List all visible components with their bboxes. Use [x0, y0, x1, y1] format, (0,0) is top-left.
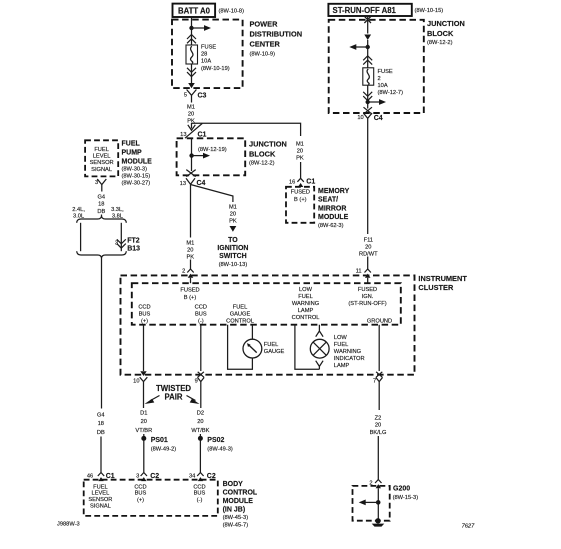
svg-text:FUEL: FUEL	[93, 484, 108, 490]
connector C4 pin 10 right	[357, 113, 382, 122]
svg-text:(-): (-)	[198, 319, 204, 325]
wire M1 20 PK C3 to C1	[187, 102, 195, 129]
label CCD BUS(-) cluster	[195, 305, 207, 325]
svg-text:MIRROR: MIRROR	[318, 205, 346, 212]
svg-text:C4: C4	[374, 115, 383, 122]
svg-text:LEVEL: LEVEL	[92, 491, 110, 497]
wire Z2 20 BK/LG	[370, 386, 387, 476]
svg-text:SENSOR: SENSOR	[90, 160, 114, 166]
connector C4 pin 13	[180, 178, 206, 187]
svg-text:ST-RUN-OFF A81: ST-RUN-OFF A81	[333, 6, 397, 15]
label 2.4L 3.0L	[72, 207, 85, 220]
label M1 20 PK ignition	[229, 204, 237, 224]
wire BATT A0 to fuse 28	[191, 17, 193, 45]
svg-text:D1: D1	[140, 410, 147, 416]
svg-text:20: 20	[188, 111, 194, 117]
svg-text:(8W-62-3): (8W-62-3)	[318, 223, 344, 229]
svg-text:(8W-15-3): (8W-15-3)	[393, 495, 419, 501]
svg-text:(8W-10-15): (8W-10-15)	[415, 8, 444, 14]
svg-text:LAMP: LAMP	[334, 363, 350, 369]
svg-text:PAIR: PAIR	[164, 393, 182, 402]
svg-text:BUS: BUS	[195, 312, 207, 318]
svg-text:18: 18	[98, 202, 104, 208]
svg-text:(8W-10-19): (8W-10-19)	[201, 66, 230, 72]
svg-text:FUSED: FUSED	[358, 287, 377, 293]
svg-text:20: 20	[230, 211, 236, 217]
brace engine merge bottom	[77, 251, 127, 258]
svg-text:C1: C1	[306, 179, 315, 186]
svg-text:BUS: BUS	[139, 312, 151, 318]
svg-text:RD/WT: RD/WT	[359, 251, 378, 257]
label FUSE 2 10A (8W-12-7)	[378, 69, 404, 96]
svg-text:7627: 7627	[462, 523, 475, 529]
wire CCD bus plus inside cluster	[143, 325, 145, 371]
svg-text:(8W-10-13): (8W-10-13)	[219, 262, 248, 268]
fuse 2 10A	[363, 68, 374, 85]
svg-text:28: 28	[201, 52, 207, 58]
svg-text:F11: F11	[364, 237, 373, 243]
svg-text:(8W-12-2): (8W-12-2)	[249, 160, 275, 166]
label TO IGNITION SWITCH (8W-10-13)	[217, 237, 248, 268]
wire fuel gauge control loop	[228, 325, 253, 369]
label FUSED IGN ST-RUN-OFF	[348, 287, 386, 307]
label G200 (8W-15-3)	[393, 486, 419, 501]
svg-text:PK: PK	[187, 254, 195, 260]
battery feed BATT A0	[173, 4, 216, 17]
svg-text:LEVEL: LEVEL	[93, 154, 111, 160]
label JUNCTION BLOCK (8W-12-2) right	[427, 19, 465, 46]
svg-text:FUEL: FUEL	[94, 147, 109, 153]
connector FT2 B13 pin 3	[115, 238, 140, 253]
svg-text:TO: TO	[228, 237, 238, 244]
wire CCD bus minus inside cluster	[200, 325, 202, 371]
node splice junction block	[189, 153, 193, 157]
svg-text:FUSE: FUSE	[201, 45, 216, 51]
fuel pump module box	[85, 140, 118, 176]
svg-text:WT/BK: WT/BK	[191, 428, 209, 434]
svg-text:GROUND: GROUND	[367, 319, 392, 325]
node splice lower JB	[366, 100, 370, 104]
lamp terminal lower	[316, 361, 323, 370]
arrow to ignition switch	[230, 226, 237, 232]
svg-text:D2: D2	[197, 410, 204, 416]
entry arrow G200	[376, 484, 381, 521]
connector pin 2 G200	[369, 476, 381, 486]
svg-text:MODULE: MODULE	[318, 214, 349, 221]
entry crossing at JB top edge	[364, 16, 371, 23]
svg-text:CLUSTER: CLUSTER	[418, 283, 454, 292]
svg-text:SIGNAL: SIGNAL	[90, 504, 111, 510]
connector C3 pin 5	[184, 90, 207, 102]
svg-text:DISTRIBUTION: DISTRIBUTION	[250, 30, 303, 39]
svg-text:(8W-45-3): (8W-45-3)	[223, 515, 249, 521]
svg-text:JUNCTION: JUNCTION	[427, 19, 465, 28]
node splice upper JB	[366, 45, 370, 49]
wire arrow to other circuits	[192, 25, 212, 31]
svg-text:DB: DB	[97, 430, 105, 436]
connector C2 pin 34	[189, 469, 216, 481]
svg-text:(+): (+)	[141, 319, 148, 325]
wire branch 3.3L 3.8L	[120, 223, 122, 251]
node splice in PDC	[189, 26, 193, 30]
svg-text:CONTROL: CONTROL	[292, 315, 320, 321]
svg-text:MODULE: MODULE	[223, 498, 254, 505]
svg-text:10A: 10A	[378, 83, 388, 89]
svg-text:PS02: PS02	[207, 437, 224, 444]
svg-text:(8W-49-3): (8W-49-3)	[207, 446, 233, 452]
svg-text:FUEL: FUEL	[334, 342, 349, 348]
svg-text:(8W-12-2): (8W-12-2)	[427, 40, 453, 46]
label FUEL GAUGE	[264, 342, 285, 355]
svg-text:5: 5	[184, 93, 187, 99]
label 3.3L 3.8L	[111, 207, 124, 220]
wire fuse 2 to C4	[367, 85, 369, 108]
label FUSED B(+) memory	[291, 190, 310, 203]
svg-text:WARNING: WARNING	[292, 301, 319, 307]
svg-text:(8W-49-2): (8W-49-2)	[151, 446, 177, 452]
svg-text:SENSOR: SENSOR	[88, 497, 112, 503]
svg-text:3: 3	[136, 474, 139, 480]
exit crossing at JB bottom edge	[364, 107, 373, 114]
connector C1 pin 13 junction block	[180, 123, 206, 138]
connector chevrons below fuse 2	[363, 92, 372, 101]
svg-text:(+): (+)	[137, 497, 144, 503]
wire A81 into junction block	[367, 16, 369, 34]
svg-text:JUNCTION: JUNCTION	[249, 139, 287, 148]
svg-text:PS01: PS01	[151, 437, 168, 444]
label FUEL GAUGE CONTROL	[226, 305, 254, 325]
svg-text:G200: G200	[393, 486, 410, 493]
svg-text:FUEL: FUEL	[298, 294, 313, 300]
svg-text:G4: G4	[97, 412, 105, 418]
svg-text:46: 46	[87, 474, 93, 480]
connector C1 pin 46 body control module	[87, 469, 115, 481]
svg-text:PK: PK	[229, 218, 237, 224]
svg-text:20: 20	[365, 244, 371, 250]
wire inside junction block	[191, 138, 193, 171]
svg-text:(8W-30-15): (8W-30-15)	[122, 174, 151, 180]
node splice PS01	[141, 436, 176, 453]
label TWISTED PAIR	[156, 384, 191, 402]
junction block box	[177, 138, 246, 175]
svg-text:FUSED: FUSED	[291, 190, 310, 196]
svg-text:(8W-12-7): (8W-12-7)	[378, 90, 404, 96]
svg-text:3: 3	[95, 180, 98, 186]
svg-text:SIGNAL: SIGNAL	[91, 167, 112, 173]
svg-text:9: 9	[195, 379, 198, 385]
svg-text:INSTRUMENT: INSTRUMENT	[418, 274, 467, 283]
svg-text:LOW: LOW	[299, 287, 313, 293]
svg-text:13: 13	[180, 132, 186, 138]
connector C1 pin 16 memory module	[289, 175, 315, 187]
body control module box	[84, 480, 218, 516]
svg-text:MODULE: MODULE	[122, 158, 153, 165]
svg-text:BK/LG: BK/LG	[370, 430, 387, 436]
svg-text:Z2: Z2	[375, 415, 382, 421]
svg-text:DB: DB	[97, 209, 105, 215]
svg-text:(8W-30-3): (8W-30-3)	[122, 167, 148, 173]
wire D1 20 VT/BR	[135, 386, 152, 469]
connector pin 3 fuel pump	[95, 179, 106, 189]
label POWER DISTRIBUTION CENTER	[250, 20, 303, 58]
connector pin 2 cluster entry	[182, 268, 194, 283]
wire arrow junction block internal	[192, 153, 210, 159]
exit arrow at PDC edge	[188, 83, 195, 88]
wire low fuel lamp control loop	[295, 325, 320, 369]
svg-text:LOW: LOW	[334, 335, 348, 341]
svg-text:M1: M1	[187, 104, 195, 110]
svg-text:SEAT/: SEAT/	[318, 197, 338, 204]
label MEMORY SEAT MIRROR MODULE	[318, 188, 350, 229]
power distribution center box	[172, 20, 243, 89]
svg-text:20: 20	[197, 419, 203, 425]
low fuel warning indicator lamp	[310, 339, 329, 358]
svg-text:CCD: CCD	[134, 484, 146, 490]
svg-text:CCD: CCD	[138, 305, 150, 311]
svg-text:BLOCK: BLOCK	[427, 29, 454, 38]
wire arrow right JB internal	[368, 99, 386, 105]
svg-text:MEMORY: MEMORY	[318, 188, 350, 195]
exit arrow pin 9	[195, 372, 205, 386]
instrument cluster inner box	[132, 283, 401, 325]
svg-text:CONTROL: CONTROL	[223, 490, 258, 497]
svg-text:3.3L,: 3.3L,	[111, 207, 124, 213]
svg-text:11: 11	[356, 268, 362, 274]
wire D2 20 WT/BK	[191, 386, 209, 469]
svg-text:10: 10	[133, 378, 139, 384]
svg-text:16: 16	[289, 180, 295, 186]
exit crossing at JB edge	[186, 170, 195, 177]
svg-text:FUSED: FUSED	[180, 288, 199, 294]
svg-text:3: 3	[115, 241, 118, 247]
wire G4 18 DB upper	[97, 189, 105, 216]
wire arrow left JB internal	[349, 44, 367, 50]
exit arrow pin 7	[373, 372, 383, 386]
svg-text:FUSE: FUSE	[378, 69, 393, 75]
wire M1 20 PK to memory module labels	[296, 141, 304, 175]
svg-text:CENTER: CENTER	[250, 40, 281, 49]
svg-text:BUS: BUS	[135, 491, 147, 497]
label FUEL LEVEL SENSOR SIGNAL pump	[90, 147, 114, 173]
svg-text:GAUGE: GAUGE	[264, 349, 285, 355]
wire F11 20 RD/WT to cluster	[359, 122, 378, 269]
brace engine split top	[77, 216, 127, 223]
ground symbol	[372, 518, 385, 527]
svg-text:M1: M1	[229, 204, 237, 210]
svg-text:BUS: BUS	[194, 491, 206, 497]
svg-text:18: 18	[98, 421, 104, 427]
svg-text:G4: G4	[98, 194, 106, 200]
svg-text:CONTROL: CONTROL	[226, 319, 254, 325]
svg-text:B (+): B (+)	[294, 197, 307, 203]
svg-text:(8W-12-19): (8W-12-19)	[198, 147, 227, 153]
arrow down inside JB	[364, 35, 371, 41]
svg-text:34: 34	[189, 474, 195, 480]
connector chevrons above fuse 2	[363, 56, 372, 65]
svg-text:(-): (-)	[197, 497, 203, 503]
svg-text:2: 2	[378, 76, 381, 82]
svg-text:INDICATOR: INDICATOR	[334, 356, 365, 362]
connector chevrons below fuse	[187, 68, 196, 77]
label JUNCTION BLOCK (8W-12-2)	[249, 139, 287, 166]
memory seat mirror module box	[286, 187, 314, 223]
svg-text:10: 10	[357, 115, 363, 121]
svg-text:FUEL: FUEL	[233, 305, 248, 311]
svg-text:PK: PK	[296, 155, 304, 161]
label FUEL PUMP MODULE	[122, 140, 153, 186]
label CCD BUS(+) cluster	[138, 305, 150, 325]
svg-text:B13: B13	[127, 246, 140, 253]
wire M1 20 PK C4 to instrument cluster	[186, 184, 194, 269]
connector C2 pin 3	[136, 469, 159, 481]
svg-text:(ST-RUN-OFF): (ST-RUN-OFF)	[348, 301, 386, 307]
svg-text:CCD: CCD	[195, 305, 207, 311]
svg-text:IGN.: IGN.	[362, 294, 374, 300]
svg-text:B (+): B (+)	[184, 295, 197, 301]
junction block box right	[329, 20, 424, 113]
wire fuel gauge to fused b+	[251, 325, 253, 339]
label INSTRUMENT CLUSTER	[418, 274, 467, 292]
svg-text:20: 20	[141, 419, 147, 425]
svg-text:(8W-45-7): (8W-45-7)	[223, 523, 249, 529]
twisted pair arrow left	[145, 396, 160, 405]
label LOW FUEL WARNING LAMP CONTROL	[292, 287, 320, 321]
svg-text:13: 13	[180, 181, 186, 187]
svg-text:J988W-3: J988W-3	[57, 522, 80, 528]
wire branch to ignition switch	[191, 185, 233, 203]
connector chevrons above fuse	[187, 35, 196, 44]
twisted pair arrow right	[187, 396, 200, 405]
fuel gauge	[243, 339, 262, 358]
svg-text:7: 7	[373, 379, 376, 385]
connector pin 11 cluster entry	[356, 268, 371, 283]
svg-text:BODY: BODY	[223, 481, 244, 488]
wire arrow left G200 internal	[359, 500, 379, 506]
svg-text:(8W-10-9): (8W-10-9)	[250, 52, 276, 58]
wire to fuse 2	[367, 40, 369, 68]
svg-text:M1: M1	[296, 141, 304, 147]
svg-text:SWITCH: SWITCH	[219, 253, 247, 260]
svg-text:20: 20	[297, 148, 303, 154]
svg-text:2.4L,: 2.4L,	[72, 207, 85, 213]
svg-text:CCD: CCD	[193, 484, 205, 490]
svg-text:TWISTED: TWISTED	[156, 384, 191, 393]
label LOW FUEL WARNING INDICATOR LAMP	[334, 335, 365, 369]
svg-text:BATT A0: BATT A0	[178, 6, 211, 15]
exit arrow pin 10	[133, 371, 147, 386]
wire G4 18 DB lower	[97, 259, 105, 470]
svg-text:POWER: POWER	[250, 20, 279, 29]
svg-text:(8W-30-27): (8W-30-27)	[122, 181, 151, 187]
svg-text:FUEL: FUEL	[264, 342, 279, 348]
svg-text:IGNITION: IGNITION	[217, 245, 248, 252]
label CCD BUS(+) bcm	[134, 484, 146, 503]
label FUEL LEVEL SENSOR SIGNAL bcm	[88, 484, 112, 509]
label BODY CONTROL MODULE (IN JB)	[223, 481, 258, 529]
svg-text:FT2: FT2	[127, 238, 140, 245]
svg-text:PUMP: PUMP	[122, 149, 143, 156]
wire branch to memory seat mirror module	[192, 123, 301, 136]
wire branch 2.4L 3.0L	[80, 223, 82, 251]
fuse 28 10A	[186, 45, 198, 64]
label CCD BUS(-) bcm	[193, 484, 205, 503]
svg-text:LAMP: LAMP	[298, 308, 314, 314]
wire fuse to C3	[191, 64, 193, 84]
svg-text:BLOCK: BLOCK	[249, 149, 276, 158]
node splice PS02	[198, 436, 233, 453]
svg-text:VT/BR: VT/BR	[135, 428, 152, 434]
svg-text:(8W-10-8): (8W-10-8)	[219, 8, 245, 14]
svg-text:GAUGE: GAUGE	[230, 312, 251, 318]
wire ground inside cluster	[378, 325, 380, 371]
instrument cluster box	[121, 275, 415, 374]
label FUSED B(+) cluster	[180, 288, 199, 302]
label FUSE 28 10A (8W-10-19)	[201, 45, 230, 72]
svg-text:M1: M1	[186, 240, 194, 246]
svg-text:2: 2	[182, 268, 185, 274]
ground G200 box	[353, 486, 390, 521]
svg-text:WARNING: WARNING	[334, 349, 361, 355]
ignition feed ST-RUN-OFF A81	[328, 4, 411, 16]
svg-text:20: 20	[375, 423, 381, 429]
lamp terminal upper	[316, 325, 323, 337]
svg-text:C3: C3	[198, 92, 207, 99]
node splice G200	[376, 500, 381, 505]
svg-text:10A: 10A	[201, 59, 211, 65]
svg-text:FUEL: FUEL	[122, 140, 141, 147]
svg-text:(IN JB): (IN JB)	[223, 507, 246, 514]
svg-text:20: 20	[187, 247, 193, 253]
